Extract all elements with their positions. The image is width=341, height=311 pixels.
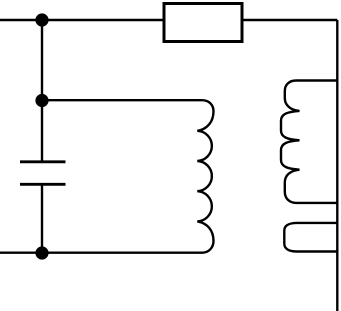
node C junction dot bottom-left [35,246,48,259]
node A junction dot top-left [35,13,48,26]
wire left vertical bus from node A down to capacitor top plate [41,20,43,162]
wire from resistor R1 right side to right rail [242,19,337,21]
wire right rail vertical [336,20,338,311]
wire from node B to inductor L1 top [42,99,202,101]
capacitor C1 [20,162,66,185]
wire capacitor bottom lead down to node C [41,184,43,253]
wire bottom from left edge through node C to inductor L1 bottom [0,251,203,253]
resistor R1 [164,4,242,42]
inductor L2 upper winding (right coil, 4 arcs) with leads to rail [281,81,337,203]
wire top-left from left edge to resistor [0,19,164,21]
node B junction dot mid-left [35,94,48,107]
inductor L3 lower winding (single loop) with leads to rail [284,223,337,252]
inductor L1 (middle coil, 5 arcs) [197,100,213,253]
